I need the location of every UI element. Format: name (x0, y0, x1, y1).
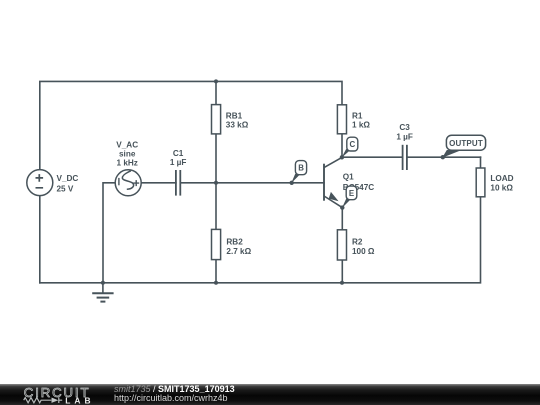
svg-text:sine: sine (119, 150, 136, 159)
svg-text:E: E (349, 189, 354, 198)
svg-text:RB1: RB1 (226, 112, 243, 121)
svg-text:RB2: RB2 (226, 237, 243, 246)
svg-text:1 µF: 1 µF (170, 158, 187, 167)
svg-text:25 V: 25 V (57, 184, 74, 193)
svg-text:1 kHz: 1 kHz (117, 159, 138, 168)
svg-text:LOAD: LOAD (490, 174, 513, 183)
svg-text:1 µF: 1 µF (396, 132, 413, 141)
svg-text:OUTPUT: OUTPUT (449, 139, 483, 148)
svg-text:B: B (298, 164, 304, 173)
svg-text:LAB: LAB (65, 395, 90, 405)
svg-text:C3: C3 (399, 123, 410, 132)
svg-text:R2: R2 (352, 237, 363, 246)
svg-text:33 kΩ: 33 kΩ (226, 121, 249, 130)
svg-text:C1: C1 (173, 149, 184, 158)
svg-text:C: C (350, 140, 356, 149)
svg-text:V_AC: V_AC (116, 140, 138, 149)
svg-text:2.7 kΩ: 2.7 kΩ (226, 247, 251, 256)
svg-text:100 Ω: 100 Ω (352, 247, 375, 256)
svg-text:Q1: Q1 (343, 172, 354, 181)
svg-text:V_DC: V_DC (57, 174, 79, 183)
svg-text:R1: R1 (352, 112, 363, 121)
svg-text:1 kΩ: 1 kΩ (352, 121, 370, 130)
svg-text:10 kΩ: 10 kΩ (490, 184, 513, 193)
